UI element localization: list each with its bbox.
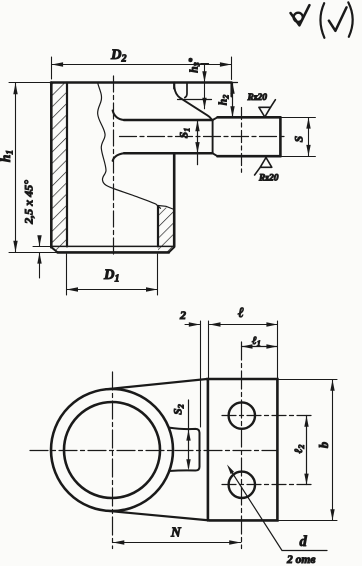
diameter step line on stem — [212, 120, 214, 153]
tangent edge short line — [185, 83, 187, 98]
bolt hole lower — [229, 472, 255, 498]
plate left face edge — [207, 379, 210, 520]
step top chamfer — [213, 117, 218, 120]
roughness mark Rz20 upper — [259, 100, 276, 117]
surface finish symbol machined-all-over (check with circle) — [291, 5, 310, 25]
dimension S1 — [197, 120, 199, 165]
ring horizontal centerline — [30, 450, 277, 452]
svg-text:Rz20: Rz20 — [258, 174, 279, 184]
dimension 2 (web gap) — [185, 321, 209, 427]
dimension 2,5x45 chamfer — [33, 236, 58, 278]
body left wall inner (bore) edge — [66, 83, 68, 247]
dimension l1 — [242, 346, 278, 348]
dimension h2 — [232, 83, 234, 118]
svg-text:2,5 x 45°: 2,5 x 45° — [22, 180, 36, 225]
left wall hatching — [51, 83, 67, 253]
stem thin section bottom edge — [124, 152, 213, 155]
dimension l2 — [306, 416, 308, 485]
conical boss slant edge — [174, 88, 211, 121]
dimension b — [277, 380, 337, 521]
bolt hole upper — [229, 402, 255, 428]
svg-text:S1: S1 — [179, 128, 192, 138]
body left wall outer edge — [50, 83, 53, 248]
upper hole horizontal centerline — [222, 415, 311, 417]
body top face — [51, 81, 232, 84]
ring vertical centerline — [112, 372, 114, 549]
stem vertical centerline — [241, 108, 243, 173]
svg-text:S: S — [294, 136, 306, 142]
right bore wall edge — [157, 206, 159, 246]
svg-text:D1: D1 — [103, 267, 119, 285]
rib boss outline — [169, 428, 200, 471]
roughness mark Rz20 lower — [255, 158, 272, 176]
stem thin section top edge — [124, 119, 213, 122]
dimension N — [113, 542, 242, 544]
svg-text:b: b — [317, 442, 331, 448]
stem bottom root fillet — [113, 153, 124, 161]
stem top root fillet — [113, 111, 124, 121]
svg-text:ℓ2: ℓ2 — [293, 445, 306, 454]
right wall hatching — [158, 206, 174, 253]
svg-text:ℓ1: ℓ1 — [252, 335, 261, 348]
dimension l — [210, 321, 278, 379]
svg-text:D2: D2 — [110, 47, 126, 65]
left bottom chamfer — [51, 247, 57, 252]
dimension S2 — [188, 400, 190, 468]
svg-text:Rz20: Rz20 — [247, 93, 268, 103]
dimension D2 — [52, 57, 232, 80]
svg-text:d: d — [300, 534, 308, 550]
hatch boundary over break at right wall — [158, 206, 174, 210]
dimension h1 — [9, 83, 57, 253]
svg-text:ℓ: ℓ — [238, 306, 244, 321]
holes vertical centerline — [241, 342, 243, 549]
svg-text:h1: h1 — [0, 150, 16, 162]
body bottom face — [58, 251, 169, 254]
stem horizontal centerline — [120, 136, 285, 138]
svg-text:h2: h2 — [218, 95, 231, 105]
leader for hole diameter d — [230, 469, 327, 550]
lower tangent edge — [106, 511, 209, 521]
dimension S — [280, 118, 315, 157]
svg-text:N: N — [170, 525, 182, 540]
lower hole horizontal centerline — [222, 484, 311, 486]
upper tangent edge — [106, 379, 207, 389]
svg-text:2: 2 — [179, 308, 186, 322]
svg-text:2 отв: 2 отв — [286, 554, 315, 566]
ring inner circle — [64, 402, 160, 498]
svg-text:S2: S2 — [173, 404, 186, 414]
dimension D1 — [67, 254, 158, 295]
stem thick section bottom edge — [218, 155, 281, 158]
plate outline — [207, 379, 278, 520]
body right outer edge upper segment — [173, 83, 175, 89]
dimension h3 — [201, 64, 209, 109]
stem right end face — [279, 117, 282, 156]
inner bottom edge line — [51, 245, 174, 247]
right bottom chamfer — [169, 247, 174, 252]
stem thick section top edge — [218, 116, 281, 119]
plate edge in profile (right vertical) — [230, 83, 232, 97]
boss inner edge line — [178, 99, 212, 101]
step bottom chamfer — [213, 153, 218, 156]
break (wavy) line of broken-out section — [98, 83, 161, 208]
body vertical centerline — [113, 76, 115, 257]
surface finish symbol in parentheses (rest of surfaces) — [320, 2, 352, 37]
ring outer circle — [51, 389, 173, 511]
body right outer edge lower segment — [173, 153, 176, 246]
